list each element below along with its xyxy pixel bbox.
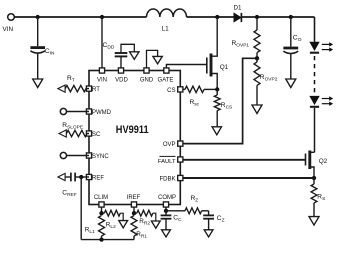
capacitor CO: [283, 17, 301, 79]
capacitor CREF: [62, 173, 89, 199]
resistor RSC: [183, 86, 218, 107]
pin CS: [167, 87, 183, 94]
svg-text:VIN: VIN: [3, 26, 14, 33]
svg-text:FDBK: FDBK: [159, 177, 175, 183]
diode D1: [234, 5, 243, 23]
node R_OVP1 tap: [255, 15, 259, 19]
node COMP junction: [164, 209, 168, 213]
terminal VIN input: [3, 14, 15, 33]
capacitor CZ: [203, 211, 224, 230]
wire REF riser down: [80, 177, 82, 240]
node Q1 drain tap: [215, 15, 219, 19]
resistor RR1: [131, 216, 147, 240]
terminal REF arrow: [58, 173, 65, 180]
pin RT: [86, 86, 100, 93]
pin CLIM: [94, 195, 108, 207]
pin OVP: [163, 141, 183, 148]
resistor RL1: [85, 216, 105, 240]
wire OVP to divider: [183, 58, 255, 143]
inductor L1: [147, 9, 187, 33]
svg-text:Q1: Q1: [220, 64, 229, 71]
terminal SYNC: [60, 152, 89, 158]
pin PWMD: [86, 109, 111, 116]
wire FDBK to Q2 source: [183, 177, 314, 179]
node OVP divider junction: [255, 56, 259, 60]
resistor RL2: [102, 210, 124, 230]
transistor Q2: [306, 151, 328, 179]
svg-text:SYNC: SYNC: [92, 154, 109, 160]
svg-text:RT: RT: [92, 87, 100, 93]
svg-text:Q2: Q2: [319, 158, 328, 165]
pin GND: [140, 68, 154, 84]
wire FAULT to Q2 gate: [183, 159, 306, 161]
node C_O tap: [289, 15, 293, 19]
resistor RR2: [134, 210, 156, 226]
wire output corner down: [314, 17, 316, 42]
svg-text:VDD: VDD: [115, 78, 128, 84]
svg-text:D1: D1: [234, 5, 243, 12]
node VIN pin tap: [100, 15, 104, 19]
wire COMP drop: [165, 207, 167, 211]
node REF junction: [79, 175, 83, 179]
resistor RS: [311, 178, 325, 216]
ground RS: [309, 217, 319, 226]
ground CIN: [33, 79, 43, 88]
pin VIN: [97, 68, 107, 84]
ground RR2: [151, 221, 160, 228]
capacitor CDD: [103, 42, 135, 68]
wire GATE to Q1 gate: [166, 65, 206, 69]
svg-text:FAULT: FAULT: [158, 159, 176, 165]
LED D2: [309, 42, 333, 53]
svg-text:CLIM: CLIM: [94, 195, 108, 201]
resistor RT: [65, 75, 89, 92]
resistor ROVP1: [232, 17, 261, 58]
transistor Q1: [207, 17, 229, 89]
pin VDD: [115, 68, 128, 84]
node CLIM junction: [99, 211, 103, 215]
terminal RT arrow: [58, 85, 65, 92]
wire rail L1 to D1: [187, 16, 234, 18]
terminal SC arrow: [59, 130, 66, 137]
pin SC: [86, 131, 101, 138]
wire rail D1 to corner: [241, 16, 314, 18]
resistor ROVP2: [254, 58, 278, 104]
op-amp U1 HV9911 IC body: [89, 71, 180, 205]
svg-text:SC: SC: [92, 132, 101, 138]
pin IREF: [127, 195, 141, 207]
wire VIN pin riser: [101, 17, 103, 68]
ground CO: [286, 79, 296, 88]
pin GATE: [158, 68, 174, 84]
svg-text:GND: GND: [140, 78, 154, 84]
node Q2 source junction: [312, 176, 316, 180]
svg-text:OVP: OVP: [163, 142, 176, 148]
svg-text:PWMD: PWMD: [92, 110, 112, 116]
wire CLIM drop: [101, 207, 103, 213]
LED D3: [309, 96, 333, 107]
svg-text:COMP: COMP: [158, 195, 176, 201]
node Q1 source junction: [215, 87, 219, 91]
wire LED string dashed: [314, 56, 316, 94]
wire LED2 to Q2 drain: [314, 108, 316, 152]
resistor RCS: [214, 89, 232, 126]
svg-text:CS: CS: [167, 88, 175, 94]
wire GND pin to ground: [147, 50, 158, 68]
ground RL2: [119, 221, 128, 228]
svg-text:IREF: IREF: [127, 195, 141, 201]
wire IREF drop: [133, 207, 135, 213]
svg-text:VIN: VIN: [97, 78, 107, 84]
ground CZ: [204, 230, 213, 237]
ground ROVP2: [252, 105, 262, 114]
pin REF: [86, 174, 104, 181]
pin FAULT: [158, 156, 183, 164]
capacitor CIN: [30, 17, 55, 79]
ground CDD: [130, 52, 139, 60]
pin COMP: [158, 195, 176, 207]
resistor RZ: [166, 195, 209, 214]
wire bottom reference rail: [81, 239, 134, 241]
pin FDBK: [159, 175, 182, 182]
node C_IN tap: [36, 15, 40, 19]
wire top rail left: [14, 16, 146, 18]
capacitor CC: [161, 211, 182, 230]
terminal PWMD: [60, 108, 89, 114]
ground CC: [162, 230, 171, 237]
svg-text:HV9911: HV9911: [116, 124, 149, 136]
svg-text:GATE: GATE: [158, 78, 174, 84]
resistor RSLOPE: [62, 122, 89, 137]
node RL1 bottom: [99, 237, 103, 241]
ground GND pin: [153, 56, 162, 64]
svg-text:REF: REF: [92, 176, 104, 182]
node IREF junction: [132, 211, 136, 215]
svg-text:L1: L1: [162, 26, 170, 33]
ground RCS: [212, 127, 221, 135]
pin SYNC: [86, 153, 109, 160]
